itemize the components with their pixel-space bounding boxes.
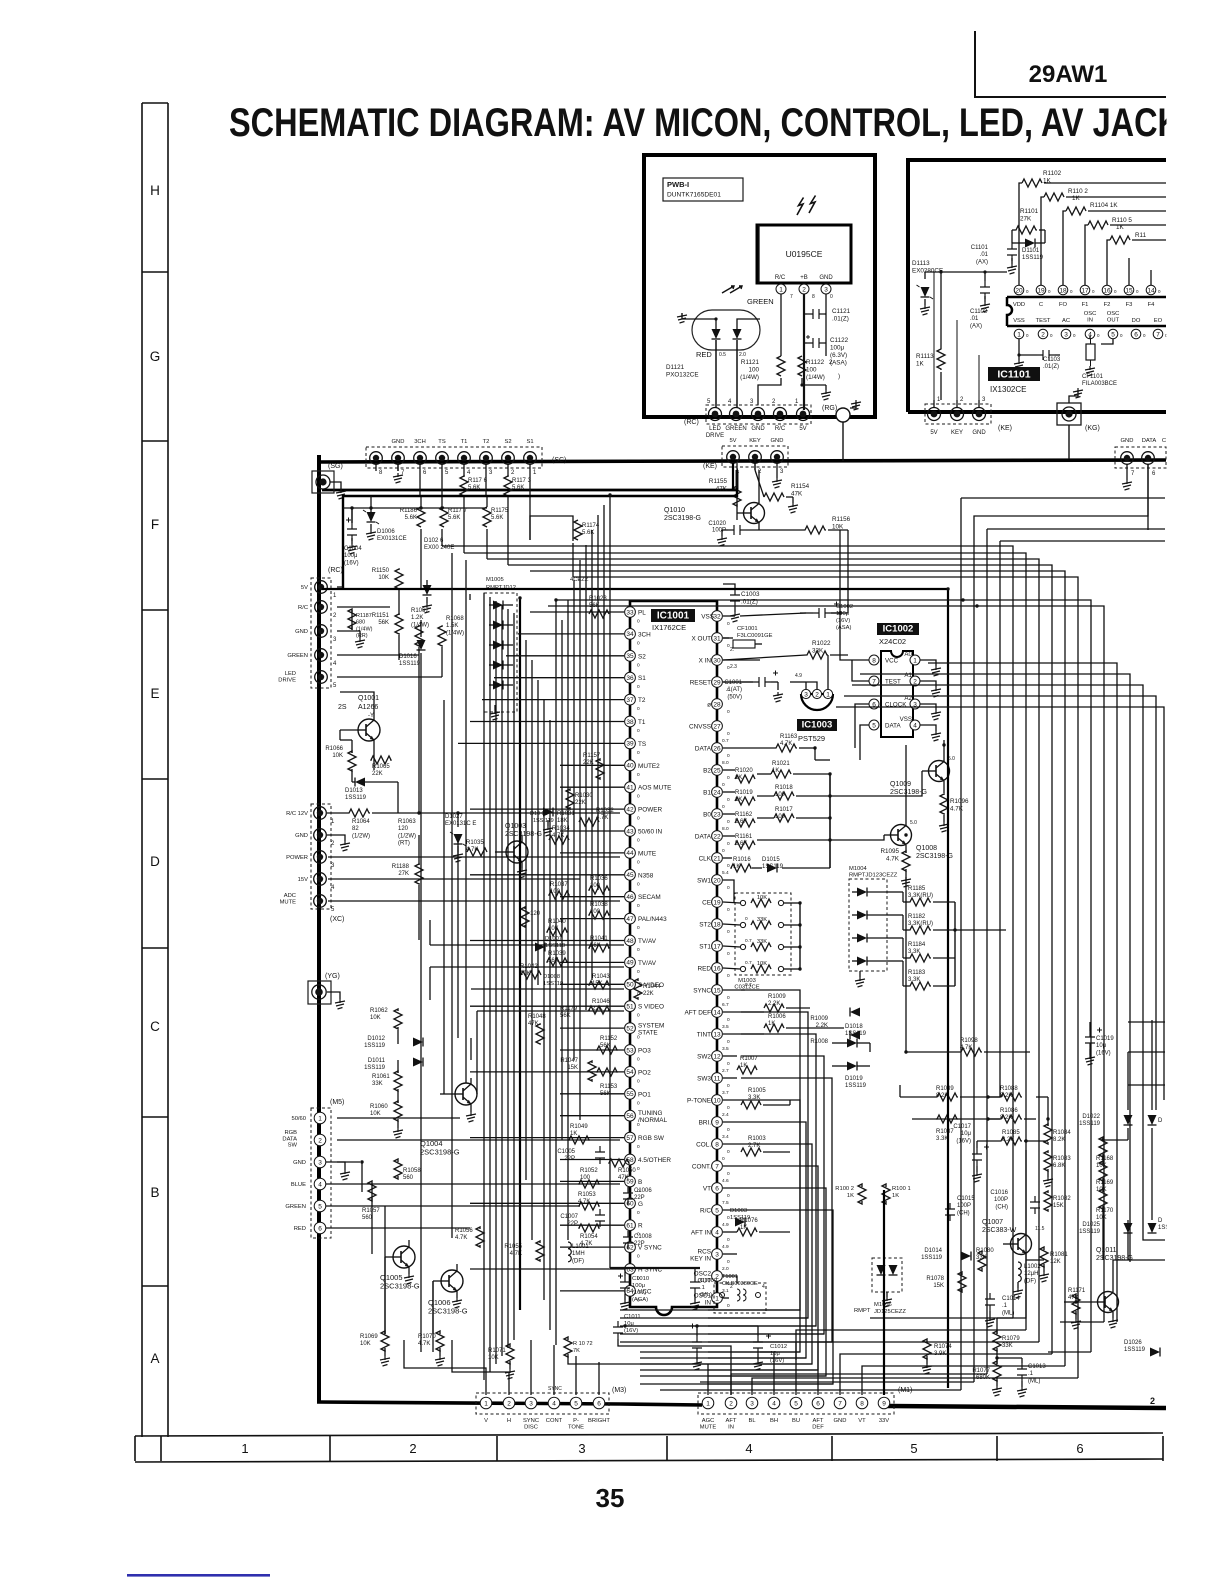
svg-text:ST2: ST2 [699, 922, 711, 929]
IC1001 pin 43 50/60 IN [625, 826, 636, 837]
svg-text:0: 0 [727, 775, 730, 781]
svg-text:2: 2 [913, 678, 917, 685]
svg-text:C1013: C1013 [1028, 1364, 1046, 1370]
svg-text:(RC): (RC) [328, 567, 343, 574]
SG ground [330, 482, 341, 489]
resistor R1153 [597, 1068, 617, 1076]
svg-text:R1068: R1068 [446, 616, 464, 622]
M1003 resistor 33K [740, 944, 745, 949]
connector KE2 pin 3 [973, 408, 986, 421]
svg-text:16: 16 [1103, 287, 1111, 294]
svg-text:VSS: VSS [701, 614, 714, 621]
svg-text:40: 40 [626, 763, 634, 770]
svg-text:2.7: 2.7 [722, 1068, 729, 1074]
IC1001 pin 24 B1 [712, 787, 723, 798]
svg-text:1: 1 [779, 286, 783, 293]
resistor R1174 [574, 520, 582, 540]
svg-text:0: 0 [637, 903, 640, 909]
IC1001 pin 18 ST2 [712, 919, 723, 930]
svg-text:R117 3: R117 3 [512, 478, 532, 484]
IC1002 pin 1 ground [920, 660, 936, 666]
svg-text:H: H [507, 1418, 511, 1424]
connector M3 pin 6 [593, 1397, 605, 1409]
gnd q1003 [547, 820, 549, 826]
IC1001 pin 63 H SYNC [625, 1264, 636, 1275]
svg-text:MUTE: MUTE [638, 850, 656, 857]
svg-text:0: 0 [722, 1156, 725, 1162]
svg-text:2SC3198-G: 2SC3198-G [664, 515, 701, 522]
IC1001 pin 29 RESET [712, 677, 723, 688]
wire D1025 net [1127, 1220, 1129, 1236]
connector RC2 pin 4 [315, 649, 328, 662]
svg-text:D1006: D1006 [377, 529, 395, 535]
svg-text:0.7: 0.7 [745, 960, 752, 966]
svg-text:7K: 7K [573, 1348, 580, 1354]
svg-text:C1008: C1008 [634, 1234, 652, 1240]
svg-text:0: 0 [637, 859, 640, 865]
svg-text:EX0131C E: EX0131C E [445, 821, 476, 827]
diode D1003 [735, 1218, 745, 1227]
svg-text:R1067: R1067 [411, 608, 429, 614]
resistor R1071 [506, 1344, 514, 1364]
svg-text:18: 18 [713, 921, 721, 928]
svg-text:R1049: R1049 [570, 1124, 588, 1130]
svg-text:Q1009: Q1009 [890, 781, 911, 788]
svg-text:0: 0 [727, 1017, 730, 1023]
svg-text:DO: DO [1132, 318, 1141, 324]
IC1001 pin 44 MUTE [625, 848, 636, 859]
resistor R1035 [467, 848, 487, 856]
svg-text:C1121: C1121 [832, 308, 851, 315]
svg-text:R1037: R1037 [550, 882, 568, 888]
svg-text:B1: B1 [703, 790, 711, 797]
main schematic border top [318, 460, 1166, 462]
svg-text:DATA: DATA [695, 746, 712, 753]
connector RC2 pin 1 [315, 581, 328, 594]
svg-text:R1101: R1101 [1020, 208, 1039, 215]
svg-text:0: 0 [637, 1013, 640, 1019]
resistor R1122 [798, 356, 806, 376]
svg-text:R1035: R1035 [466, 840, 484, 846]
capacitor C1019 [1085, 1031, 1095, 1049]
svg-text:0: 0 [637, 684, 640, 690]
svg-text:PWB-I: PWB-I [667, 180, 689, 189]
svg-text:PO1: PO1 [638, 1091, 651, 1098]
D1113 wires [924, 272, 926, 279]
diode D1012 [413, 1038, 423, 1047]
vcc rail [610, 1267, 700, 1269]
svg-text:8.2K: 8.2K [1000, 1115, 1012, 1121]
main mid vertical bundle [483, 593, 485, 1380]
svg-text:(1/4W): (1/4W) [356, 626, 373, 632]
svg-text:C1019: C1019 [1096, 1036, 1114, 1042]
maze right group 6 [844, 696, 1156, 1110]
svg-text:6: 6 [715, 1185, 719, 1192]
svg-text:(ML): (ML) [700, 1292, 712, 1298]
svg-text:CF1101: CF1101 [1082, 374, 1104, 380]
svg-text:D1011: D1011 [368, 1058, 386, 1064]
connector M5 pin 6 [314, 1222, 326, 1234]
svg-text:50: 50 [626, 982, 634, 989]
svg-text:14: 14 [1147, 287, 1155, 294]
wire Q1010 5V [736, 478, 738, 488]
LED red diode [712, 329, 721, 339]
ground at LED [681, 313, 683, 319]
capacitor C1017 [972, 1148, 982, 1166]
svg-text:(ML): (ML) [1028, 1378, 1040, 1384]
svg-text:X24C02: X24C02 [879, 637, 906, 646]
wire right pin bottoms join [620, 1309, 800, 1311]
svg-text:R1047: R1047 [560, 1058, 578, 1064]
resistor R1006 [764, 1024, 784, 1032]
svg-text:M1004: M1004 [849, 866, 868, 872]
wire AFT DEF run [723, 1011, 764, 1013]
resistor R1113 [937, 348, 945, 370]
svg-text:-Y: -Y [368, 713, 374, 719]
svg-text:S VIDEO: S VIDEO [638, 1004, 664, 1011]
svg-text:EX0131CE: EX0131CE [377, 536, 407, 542]
svg-text:RGB: RGB [284, 1130, 297, 1136]
svg-text:RED: RED [294, 1226, 306, 1232]
diode D1015 [767, 864, 777, 873]
wire P-TONE run [723, 1099, 741, 1101]
IC1001 name label [651, 609, 695, 622]
svg-text:44: 44 [626, 850, 634, 857]
resistor R1009b [764, 1004, 784, 1012]
svg-text:D1026: D1026 [1124, 1340, 1142, 1346]
IC1002 pin 7 TEST [869, 676, 879, 686]
connector M5 left strip [311, 1108, 331, 1238]
M1005 diode 1 [493, 601, 503, 610]
wire right pin runs [723, 747, 775, 749]
connector M5 pin 5 [314, 1200, 326, 1212]
svg-text:R1151: R1151 [372, 613, 390, 619]
svg-text:G: G [638, 1201, 643, 1208]
svg-text:R1043: R1043 [592, 974, 610, 980]
svg-text:(1/4W): (1/4W) [446, 630, 464, 636]
svg-text:0: 0 [727, 1149, 730, 1155]
IC1002 pin 2 A1 [910, 676, 920, 686]
svg-text:5: 5 [794, 1400, 798, 1407]
IC1002 pin 3 ground [920, 704, 936, 710]
ladder stubs [1128, 258, 1130, 285]
svg-text:4.7K: 4.7K [960, 1045, 972, 1051]
zener D1027 [454, 834, 463, 844]
svg-text:1K: 1K [892, 1193, 899, 1199]
svg-text:2.0: 2.0 [722, 1266, 729, 1272]
connector SC pin 1 [524, 452, 537, 465]
svg-text:R1071: R1071 [488, 1348, 506, 1354]
svg-text:5V: 5V [930, 430, 937, 436]
svg-text:C: C [1162, 438, 1166, 444]
XC gnd pin2 [327, 835, 345, 841]
maze right group 7 [836, 707, 1164, 1100]
svg-text:DATA: DATA [1142, 438, 1157, 444]
svg-text:0: 0 [637, 794, 640, 800]
eeprom IC1002 label [877, 623, 919, 635]
svg-text:0: 0 [727, 621, 730, 627]
svg-text:R1104 1K: R1104 1K [1090, 202, 1118, 209]
svg-text:33K: 33K [757, 939, 767, 945]
svg-text:GND: GND [1121, 438, 1134, 444]
wire R1150 drop [398, 590, 400, 615]
connector M3 pin 1 [480, 1397, 492, 1409]
svg-text:(AX): (AX) [970, 323, 982, 329]
wire R1067 drops [418, 647, 420, 813]
svg-text:10: 10 [713, 1097, 721, 1104]
svg-text:GND: GND [972, 430, 986, 436]
transistor Q1011 [1098, 1292, 1119, 1313]
svg-text:D1008: D1008 [543, 974, 560, 980]
resistor R1184 [909, 954, 931, 962]
svg-text:IC1001: IC1001 [657, 611, 690, 622]
svg-text:TUNING: TUNING [638, 1110, 663, 1117]
wire Q1005 Q1006 bases [384, 1257, 386, 1334]
wire reset [723, 681, 753, 683]
IC1001 pin 56 TUNING /NORMAL [625, 1110, 636, 1121]
LED anode wire [682, 319, 716, 329]
svg-text:DATA: DATA [885, 723, 901, 730]
wire band line p1 [530, 571, 1065, 1366]
svg-text:R1069: R1069 [360, 1334, 378, 1340]
svg-text:SW: SW [288, 1143, 298, 1149]
wire right edge stubs [1128, 1021, 1165, 1023]
svg-text:OSC2: OSC2 [694, 1271, 712, 1278]
wire D1013 row [352, 781, 355, 783]
svg-text:3: 3 [529, 1400, 533, 1407]
svg-text:(M3): (M3) [612, 1387, 626, 1394]
IC1001 pin 21 CLK [712, 853, 723, 864]
crystal CF1001 [733, 640, 755, 648]
svg-text:0: 0 [727, 1237, 730, 1243]
svg-text:2SC3198-G: 2SC3198-G [428, 1307, 468, 1316]
svg-text:DUNTK7165DE01: DUNTK7165DE01 [667, 192, 721, 199]
wire to connector [758, 378, 781, 405]
svg-text:100μ: 100μ [344, 553, 358, 559]
connector KD pin 6 [1142, 452, 1155, 465]
svg-text:D102 6: D102 6 [424, 538, 444, 544]
IC1001 pin 48 TV/AV [625, 935, 636, 946]
svg-text:FILA003BCE: FILA003BCE [1082, 381, 1117, 387]
svg-text:1K: 1K [1116, 224, 1125, 231]
svg-text:VCC: VCC [885, 658, 899, 665]
wire top 5V to IC1002 [839, 530, 841, 613]
svg-text:2SC3198-G: 2SC3198-G [505, 831, 542, 838]
capacitor C1006 [623, 1187, 633, 1205]
svg-text:5: 5 [910, 1441, 917, 1456]
svg-text:R1150: R1150 [372, 568, 390, 574]
svg-text:POWER: POWER [286, 855, 308, 861]
svg-text:R1005: R1005 [748, 1088, 766, 1094]
wire cap join [825, 313, 826, 315]
svg-text:0: 0 [637, 1254, 640, 1260]
RC GND stub [359, 631, 361, 638]
svg-text:8.0: 8.0 [722, 760, 729, 766]
svg-text:A0: A0 [904, 651, 912, 658]
svg-text:4.5/OTHER: 4.5/OTHER [638, 1157, 671, 1164]
svg-text:3.7: 3.7 [722, 1090, 729, 1096]
svg-text:IX1302CE: IX1302CE [990, 385, 1026, 394]
svg-text:6: 6 [816, 1400, 820, 1407]
capacitor C1007 [595, 1209, 605, 1227]
svg-text:680: 680 [356, 620, 365, 626]
resistor R1039 [547, 958, 567, 966]
KE2 wires [933, 400, 935, 408]
wire TV/AV runs [430, 944, 624, 946]
svg-text:R1122: R1122 [806, 359, 825, 366]
wire B2 to Q1009 [830, 771, 922, 796]
IC1001 pin 31 X OUT [712, 633, 723, 644]
svg-text:8.2K: 8.2K [1053, 1137, 1065, 1143]
IC1001 pin 33 PL [625, 607, 636, 618]
svg-text:AC: AC [1062, 318, 1070, 324]
svg-text:R1088: R1088 [1000, 1086, 1018, 1092]
connector KE2 pin 1 [928, 408, 941, 421]
svg-text:3: 3 [318, 1159, 322, 1166]
svg-text:1MH: 1MH [572, 1251, 585, 1257]
svg-text:0: 0 [727, 1105, 730, 1111]
svg-text:(1/2W): (1/2W) [352, 833, 370, 839]
micon IC1001 body [630, 601, 717, 1315]
svg-text:0: 0 [637, 1057, 640, 1063]
transistor Q1010 [744, 503, 765, 524]
svg-text:4.7K: 4.7K [466, 847, 478, 853]
svg-text:BRI.: BRI. [699, 1120, 712, 1127]
svg-text:LED: LED [285, 671, 296, 677]
wire KG drop [1068, 425, 1070, 459]
wire R1174 chain [572, 521, 574, 541]
resistor R1055 [536, 1241, 544, 1261]
svg-text:+B: +B [800, 275, 808, 281]
diode D1024 [1148, 1223, 1157, 1233]
wire R1177 chain [441, 496, 443, 507]
svg-text:4: 4 [552, 1400, 556, 1407]
resistor R1064 [348, 809, 370, 817]
svg-text:12: 12 [713, 1053, 721, 1060]
resistor R1087 [936, 1115, 958, 1123]
svg-text:R1095: R1095 [880, 848, 899, 855]
svg-text:(50V): (50V) [727, 694, 742, 700]
svg-text:GND: GND [392, 439, 405, 445]
svg-text:VSS: VSS [900, 716, 912, 723]
Q1004 wires [440, 1093, 455, 1095]
svg-text:53: 53 [626, 1047, 634, 1054]
flash marks [797, 196, 816, 216]
svg-text:3.4: 3.4 [722, 1134, 729, 1140]
svg-text:GND: GND [771, 438, 784, 444]
connector M5 pin 1 [314, 1112, 326, 1124]
IC1001 pin 53 PO3 [625, 1045, 636, 1056]
connector M5 pin 2 [314, 1134, 326, 1146]
module M1004 diode pack [849, 879, 887, 971]
IC1001 pin 6 VT [712, 1183, 723, 1194]
svg-text:0.7: 0.7 [722, 738, 729, 744]
capacitor C1002 [813, 608, 831, 618]
svg-text:0: 0 [727, 1171, 730, 1177]
resistor R1043 [589, 981, 609, 989]
wire bundle right of M1005 [561, 620, 563, 1140]
svg-text:GND: GND [751, 426, 765, 432]
resistor ladder R1110-2 [1044, 193, 1064, 201]
svg-text:H: H [150, 183, 160, 198]
wire R1077 C1013 tops [996, 1350, 998, 1364]
wire right pin runs to bottom [708, 990, 800, 1310]
svg-text:F: F [151, 517, 159, 532]
svg-text:3.3K(RU): 3.3K(RU) [908, 921, 933, 927]
svg-text:0: 0 [637, 1166, 640, 1172]
svg-text:POWER: POWER [638, 807, 663, 814]
M1006 diode 2 [889, 1265, 898, 1275]
svg-text:22K: 22K [372, 771, 383, 777]
wire BRI run [723, 1121, 741, 1123]
maze edge line 1 [961, 497, 1165, 499]
wire R1098 row [906, 1051, 960, 1053]
svg-text:Q1010: Q1010 [664, 507, 685, 514]
transistor Q1006 [441, 1270, 463, 1292]
svg-text:0: 0 [637, 1144, 640, 1150]
svg-text:BH: BH [770, 1418, 778, 1424]
maze edge line 3 [987, 528, 1165, 530]
svg-text:CILB00380CE: CILB00380CE [722, 1281, 758, 1287]
svg-text:P-TONE: P-TONE [687, 1098, 711, 1105]
svg-text:R1087: R1087 [936, 1129, 954, 1135]
maze edge line 4 [1000, 540, 1165, 542]
svg-text:5V: 5V [729, 438, 736, 444]
resistor R1050 [609, 1159, 629, 1167]
transistor Q1005 [393, 1246, 415, 1268]
svg-text:R1021: R1021 [772, 761, 790, 767]
svg-text:R1065: R1065 [372, 764, 390, 770]
svg-text:18: 18 [1059, 287, 1067, 294]
svg-text:8.0: 8.0 [722, 826, 729, 832]
svg-text:2.4: 2.4 [722, 1112, 729, 1118]
svg-text:TINT: TINT [697, 1032, 711, 1039]
svg-text:D: D [1158, 1218, 1163, 1224]
svg-text:R1062: R1062 [370, 1008, 388, 1014]
svg-text:C1006: C1006 [634, 1188, 652, 1194]
IC1001 pin 34 3CH [625, 629, 636, 640]
IC1001 pin 4 AFT IN [712, 1227, 723, 1238]
svg-text:100μ: 100μ [830, 345, 845, 352]
resistor R1070 [436, 1331, 444, 1351]
svg-text:C1101: C1101 [971, 245, 989, 251]
svg-text:0: 0 [727, 753, 730, 759]
svg-text:10K: 10K [370, 1111, 381, 1117]
reset IC1003 symbol [801, 694, 833, 710]
connector M1 bottom strip [698, 1393, 894, 1414]
IC1002 pin 6 CLOCK [869, 699, 879, 709]
resistor R1041 [589, 944, 609, 952]
wire OSC pins [723, 1276, 737, 1283]
Q1010 wires [737, 512, 744, 514]
connector M1 pin 4 [768, 1397, 780, 1409]
svg-text:6.7: 6.7 [722, 1002, 729, 1008]
svg-text:1K: 1K [1072, 195, 1081, 202]
svg-text:R1098: R1098 [960, 1038, 978, 1044]
wire M1 riser 5 [760, 1352, 774, 1395]
svg-text:20: 20 [713, 877, 721, 884]
svg-text:D1012: D1012 [367, 1036, 385, 1042]
svg-text:46: 46 [626, 894, 634, 901]
maze right group 4 [860, 674, 1130, 1262]
wire D1022 net [1127, 1052, 1129, 1110]
svg-text:R1153: R1153 [600, 1084, 618, 1090]
svg-text:0: 0 [637, 750, 640, 756]
svg-text:IN: IN [1087, 318, 1093, 324]
IC1001 pin 15 SYNC [712, 985, 723, 996]
IC1001 pin 45 N358 [625, 869, 636, 880]
resistor R1101 [1015, 226, 1037, 234]
